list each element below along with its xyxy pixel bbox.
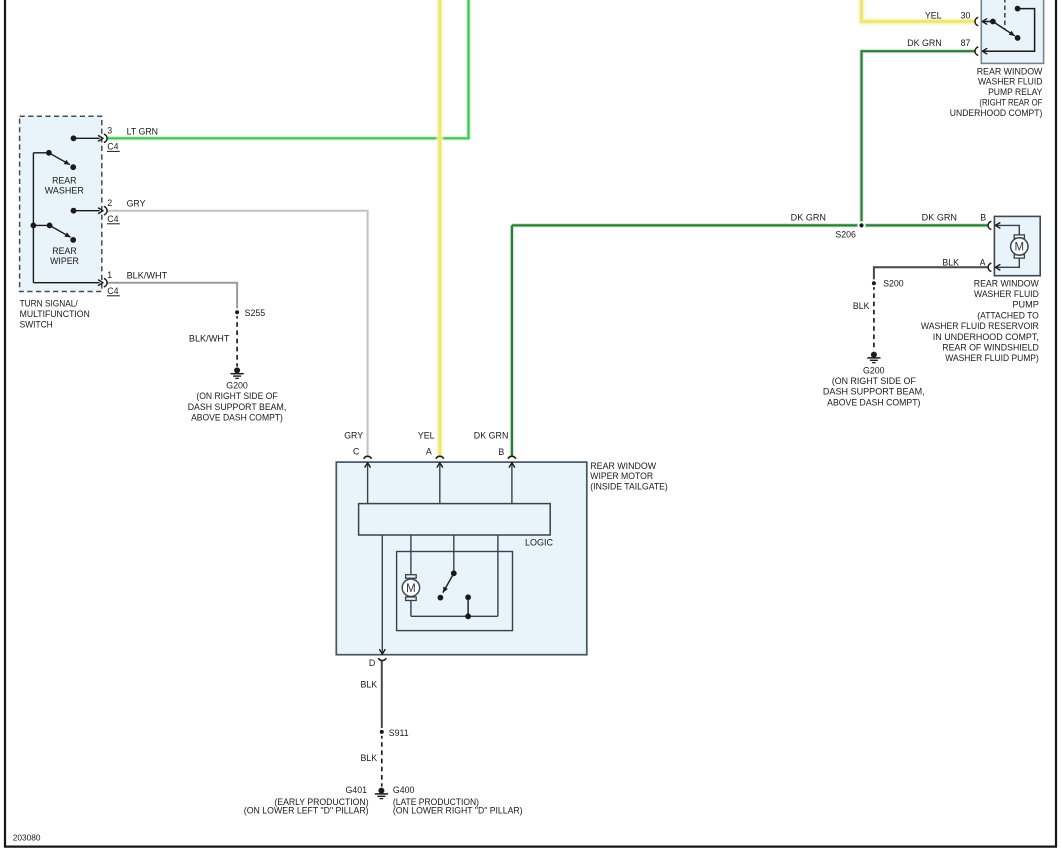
svg-text:REAR: REAR (52, 246, 76, 256)
svg-text:87: 87 (961, 38, 971, 48)
svg-text:DASH SUPPORT BEAM,: DASH SUPPORT BEAM, (823, 387, 925, 397)
svg-text:G200: G200 (226, 381, 248, 391)
svg-text:C4: C4 (107, 142, 118, 152)
svg-text:UNDERHOOD COMPT): UNDERHOOD COMPT) (950, 108, 1043, 118)
svg-text:WIPER: WIPER (50, 256, 79, 266)
svg-text:C: C (353, 447, 360, 457)
svg-text:G200: G200 (863, 365, 885, 375)
svg-text:YEL: YEL (418, 431, 435, 441)
svg-text:S200: S200 (883, 279, 904, 289)
svg-text:DASH SUPPORT BEAM,: DASH SUPPORT BEAM, (188, 402, 287, 412)
svg-text:BLK/WHT: BLK/WHT (189, 334, 230, 344)
svg-text:WASHER: WASHER (45, 186, 84, 196)
svg-text:C4: C4 (107, 286, 118, 296)
svg-text:PUMP RELAY: PUMP RELAY (988, 87, 1042, 97)
svg-text:(ON RIGHT SIDE OF: (ON RIGHT SIDE OF (196, 391, 278, 401)
svg-text:REAR WINDOW: REAR WINDOW (974, 278, 1040, 288)
svg-text:REAR WINDOW: REAR WINDOW (977, 66, 1043, 76)
svg-text:REAR: REAR (52, 175, 76, 185)
svg-text:WASHER FLUID PUMP): WASHER FLUID PUMP) (945, 353, 1039, 363)
svg-text:DK GRN: DK GRN (791, 213, 826, 223)
svg-text:B: B (980, 213, 986, 223)
svg-text:(INSIDE TAILGATE): (INSIDE TAILGATE) (590, 482, 668, 492)
svg-text:203080: 203080 (13, 833, 41, 842)
svg-text:(ATTACHED TO: (ATTACHED TO (977, 310, 1039, 320)
svg-text:M: M (1015, 242, 1025, 254)
svg-text:WASHER FLUID RESERVOIR: WASHER FLUID RESERVOIR (921, 321, 1039, 331)
svg-text:BLK: BLK (853, 301, 870, 311)
svg-text:(RIGHT REAR OF: (RIGHT REAR OF (979, 98, 1043, 108)
svg-text:WIPER MOTOR: WIPER MOTOR (590, 471, 653, 481)
svg-text:BLK/WHT: BLK/WHT (127, 270, 168, 280)
svg-text:M: M (406, 583, 416, 595)
svg-text:LOGIC: LOGIC (525, 538, 553, 549)
svg-text:WASHER FLUID: WASHER FLUID (978, 77, 1042, 87)
svg-text:A: A (426, 447, 432, 457)
svg-text:REAR WINDOW: REAR WINDOW (590, 461, 656, 471)
svg-text:B: B (498, 447, 504, 457)
svg-text:GRY: GRY (344, 431, 363, 441)
svg-text:LT GRN: LT GRN (127, 126, 158, 136)
svg-text:IN UNDERHOOD COMPT,: IN UNDERHOOD COMPT, (933, 332, 1039, 342)
svg-text:(ON LOWER RIGHT "D" PILLAR): (ON LOWER RIGHT "D" PILLAR) (393, 806, 523, 816)
svg-text:2: 2 (107, 198, 112, 208)
svg-text:G401: G401 (345, 785, 367, 795)
svg-text:C4: C4 (107, 214, 118, 224)
svg-text:D: D (369, 658, 375, 668)
svg-text:WASHER FLUID: WASHER FLUID (974, 289, 1039, 299)
svg-text:ABOVE DASH COMPT): ABOVE DASH COMPT) (191, 412, 283, 422)
svg-text:GRY: GRY (127, 199, 146, 209)
svg-text:(ON RIGHT SIDE OF: (ON RIGHT SIDE OF (832, 376, 917, 386)
svg-text:REAR OF WINDSHIELD: REAR OF WINDSHIELD (942, 343, 1039, 353)
svg-text:G400: G400 (393, 785, 415, 795)
svg-text:S206: S206 (835, 230, 856, 240)
svg-text:A: A (980, 257, 986, 267)
svg-text:(ON LOWER LEFT "D" PILLAR): (ON LOWER LEFT "D" PILLAR) (244, 806, 369, 816)
svg-text:DK GRN: DK GRN (474, 431, 509, 441)
svg-text:BLK: BLK (942, 257, 959, 267)
svg-text:DK GRN: DK GRN (907, 38, 941, 48)
svg-text:BLK: BLK (360, 680, 377, 690)
svg-text:MULTIFUNCTION: MULTIFUNCTION (20, 309, 90, 319)
svg-text:S255: S255 (245, 308, 266, 318)
svg-text:TURN SIGNAL/: TURN SIGNAL/ (20, 298, 79, 308)
svg-text:S911: S911 (389, 728, 409, 738)
svg-text:ABOVE DASH COMPT): ABOVE DASH COMPT) (827, 397, 920, 407)
svg-text:3: 3 (107, 125, 112, 135)
svg-text:YEL: YEL (925, 10, 942, 20)
svg-text:BLK: BLK (360, 753, 377, 763)
svg-text:DK GRN: DK GRN (922, 213, 957, 223)
svg-text:SWITCH: SWITCH (20, 319, 53, 329)
svg-text:30: 30 (961, 10, 971, 20)
svg-text:PUMP: PUMP (1012, 300, 1039, 310)
svg-text:1: 1 (107, 270, 112, 280)
